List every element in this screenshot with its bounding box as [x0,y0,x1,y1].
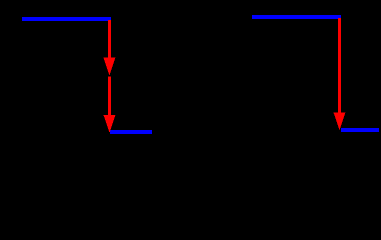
level lower-left (blue) [110,130,152,134]
level upper-left (blue) [22,17,111,21]
arrow left transition 2 (red, lower cascade step) [104,77,116,133]
arrow right transition (red, single step) [334,18,346,130]
level lower-right (blue) [341,128,379,132]
level upper-right (blue) [252,15,341,19]
arrow left transition 1 (red, upper cascade step) [104,20,116,76]
